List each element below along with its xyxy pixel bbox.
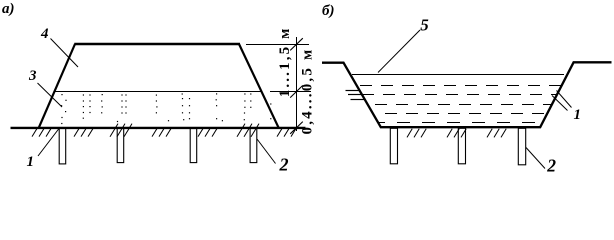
svg-text:1: 1 [574,107,582,123]
svg-text:2: 2 [279,154,289,174]
svg-text:1...1,5 м: 1...1,5 м [277,26,293,97]
svg-text:5: 5 [420,15,429,34]
svg-text:1: 1 [27,154,35,170]
svg-text:2: 2 [546,155,556,175]
svg-text:б): б) [322,3,334,19]
svg-text:0,4...0,5 м: 0,4...0,5 м [300,48,316,135]
svg-text:4: 4 [40,26,49,42]
svg-text:3: 3 [28,68,37,84]
svg-text:а): а) [2,1,15,17]
